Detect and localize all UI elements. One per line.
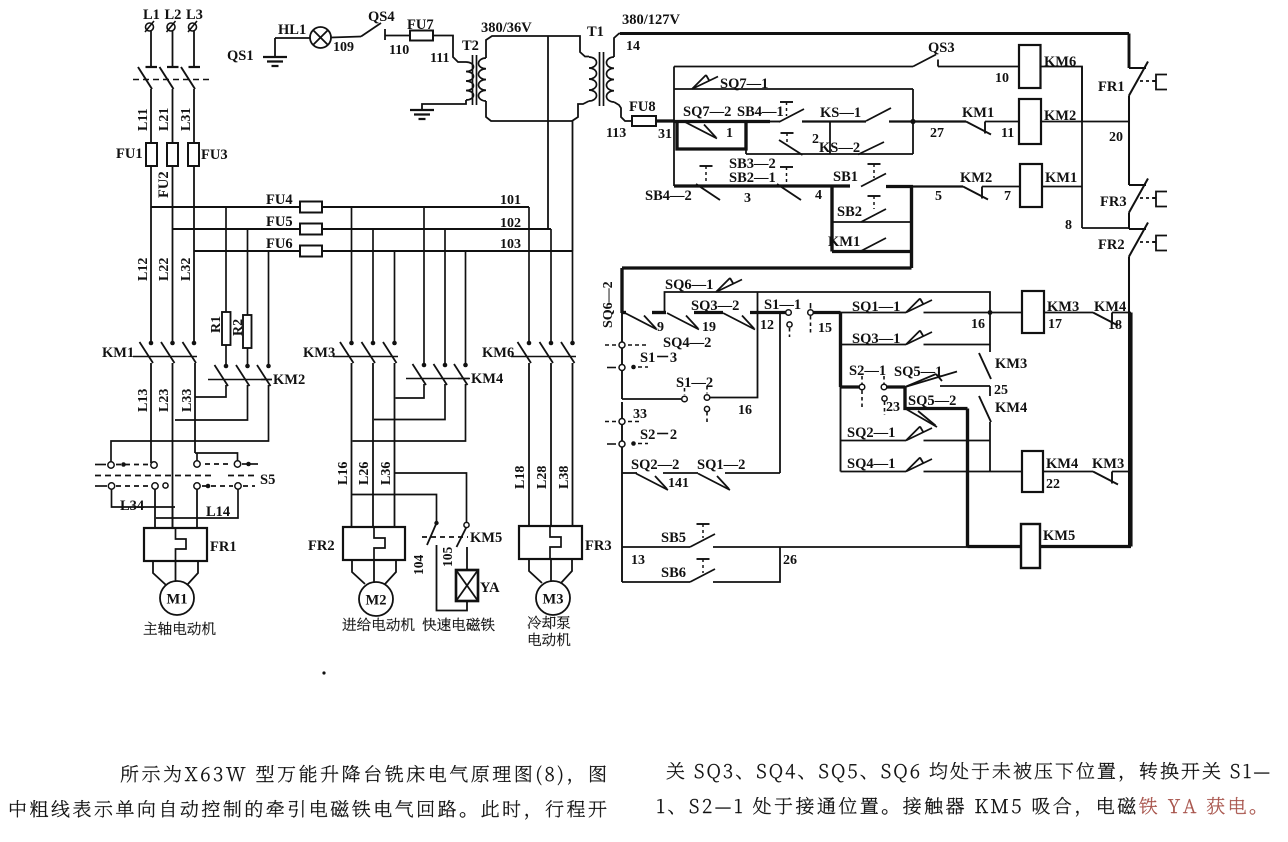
bold drop x968	[966, 409, 969, 547]
wire KM6 pole1 drop	[528, 207, 530, 343]
svg-text:102: 102	[500, 216, 521, 231]
wire SB6 up	[713, 547, 780, 582]
svg-text:YA: YA	[480, 580, 500, 596]
svg-text:4: 4	[815, 188, 822, 203]
svg-text:QS4: QS4	[368, 9, 395, 25]
svg-text:M3: M3	[543, 592, 564, 608]
svg-text:L14: L14	[206, 504, 230, 520]
rung QS3	[674, 66, 913, 68]
wire S2-1 right (bold)	[887, 385, 905, 388]
rung S1-2	[622, 398, 681, 400]
wire KM6 pole3 drop	[572, 251, 574, 343]
sub rung KS-2	[746, 153, 913, 155]
wire KM4 pole3 drop	[465, 251, 467, 365]
wire T1 secondary bottom to FU8	[614, 102, 632, 121]
svg-text:101: 101	[500, 193, 521, 208]
pushbutton SB2	[868, 195, 881, 197]
wire L28	[550, 363, 552, 526]
svg-text:SB5: SB5	[661, 530, 686, 546]
wire to KM2 coil	[985, 121, 1019, 123]
pushbutton SB5	[697, 523, 710, 525]
svg-text:20: 20	[1109, 130, 1123, 145]
disconnect switch QS1	[146, 66, 158, 68]
svg-text:KM5: KM5	[470, 530, 502, 546]
svg-text:31: 31	[658, 127, 672, 142]
bold link to lower section	[622, 266, 912, 269]
wire to KM5 coil (bold)	[968, 545, 1022, 548]
right rail	[1128, 96, 1130, 186]
wire SQ5-1 right	[940, 385, 990, 387]
rung segment (bold)	[694, 311, 723, 314]
right rail top (bold)	[1128, 34, 1131, 69]
svg-text:SB2—1: SB2—1	[729, 170, 776, 186]
svg-text:L31: L31	[179, 108, 194, 131]
paragraph right line2 red tail	[1139, 797, 1255, 815]
svg-text:111: 111	[430, 51, 449, 66]
svg-text:L21: L21	[157, 108, 172, 131]
wire KM2 pole3 to S5	[111, 385, 269, 463]
wire KM4 pole2 drop	[444, 229, 446, 365]
wire KM2 coil to rail	[1041, 121, 1129, 123]
rung SB4-2 (bold)	[674, 184, 850, 187]
svg-text:SQ4—2: SQ4—2	[663, 335, 711, 351]
wire SQ1-2 to x780	[725, 472, 780, 474]
main rung lower (bold) segment1	[622, 311, 626, 314]
node 2 link	[829, 122, 831, 155]
wire L3 drop	[193, 31, 195, 67]
bus 101	[151, 206, 300, 208]
relay coil KM4	[1022, 451, 1043, 492]
resistor R2	[247, 229, 249, 315]
svg-text:FU6: FU6	[266, 236, 293, 252]
wire QS3 to KM6 coil	[938, 66, 1019, 68]
svg-text:19: 19	[702, 320, 716, 335]
svg-text:SB2: SB2	[837, 204, 862, 220]
switch S5 plug-reverse	[108, 462, 114, 468]
wire SQ4-1 right	[924, 471, 1023, 473]
wire KM4 pole1 drop	[423, 207, 425, 365]
svg-text:13: 13	[631, 553, 645, 568]
contactor KM6 main contacts	[527, 341, 532, 346]
right rail	[1128, 213, 1130, 230]
rung SQ4-1	[841, 471, 907, 473]
svg-text:11: 11	[1001, 126, 1014, 141]
wire T2 secondary bottom	[486, 101, 572, 121]
paragraph left line2	[10, 800, 606, 820]
lamp HL1	[310, 27, 331, 48]
svg-text:S1—2: S1—2	[676, 375, 713, 391]
svg-text:L13: L13	[136, 389, 151, 412]
wire L12	[150, 166, 152, 343]
svg-text:9: 9	[657, 320, 664, 335]
terminal L3	[189, 23, 197, 31]
speed relay contact KS-2	[858, 142, 884, 155]
wire 105	[466, 547, 468, 570]
svg-text:SQ1—1: SQ1—1	[852, 299, 900, 315]
travel switch SQ1-1	[906, 300, 932, 313]
svg-text:KM6: KM6	[1044, 54, 1076, 70]
rail x990 mid	[989, 386, 991, 396]
svg-text:10: 10	[995, 71, 1009, 86]
fuse FU3	[188, 143, 199, 166]
svg-text:FU2: FU2	[156, 171, 172, 198]
wire to KM2 NC	[913, 185, 963, 187]
svg-text:L38: L38	[557, 466, 572, 489]
rail	[621, 424, 623, 441]
svg-text:109: 109	[333, 40, 354, 55]
selector switch S1-1	[786, 310, 792, 316]
wire KM3 pole1 drop	[351, 207, 353, 343]
svg-text:110: 110	[389, 43, 409, 58]
contactor KM1 main contacts	[149, 341, 154, 346]
pushbutton SB3-2	[781, 132, 794, 134]
caption 进给电动机	[343, 618, 415, 632]
svg-text:26: 26	[783, 553, 797, 568]
travel switch SQ3-1	[906, 332, 932, 345]
wire L33 jog to S5	[195, 453, 238, 461]
wire L36	[394, 363, 396, 527]
wire T2 primary to ground	[422, 100, 466, 110]
svg-text:7: 7	[1004, 189, 1011, 204]
rail x841 (bold)	[839, 313, 842, 388]
svg-text:FU5: FU5	[266, 214, 293, 230]
wire KS-1 to node 27	[889, 120, 966, 122]
fuse FU1	[146, 143, 157, 166]
wire lamp to QS4	[331, 37, 361, 38]
left rail lower (bold)	[620, 268, 623, 313]
pushbutton SB1	[868, 163, 881, 165]
rail to SB rungs	[621, 473, 623, 547]
wire T2 secondary top	[486, 36, 589, 58]
wire KM4 pole3 to L16	[353, 384, 466, 441]
switch QS3	[913, 55, 936, 67]
travel switch SQ1-2 NC	[698, 474, 730, 491]
terminal L2	[167, 23, 175, 31]
main control rung 31 (bold)	[674, 120, 770, 123]
wire 104	[437, 545, 468, 611]
svg-text:KM4: KM4	[995, 400, 1027, 416]
junction x990	[988, 310, 993, 315]
wire KM4 pole1 to L36	[396, 384, 425, 398]
selector switch S2-1	[859, 384, 865, 390]
svg-text:SB4—1: SB4—1	[737, 104, 784, 120]
contactor KM4 main contacts	[422, 363, 427, 368]
svg-text:25: 25	[994, 383, 1008, 398]
wire L1 drop	[150, 31, 152, 67]
svg-text:113: 113	[606, 126, 626, 141]
rung SQ3-1	[841, 344, 907, 346]
contact KM4 NC aux	[1093, 313, 1118, 326]
wire FR3 to M3 legs	[529, 559, 542, 583]
svg-text:KM3: KM3	[1092, 456, 1124, 472]
fuse FU8	[632, 116, 656, 126]
svg-text:22: 22	[1046, 477, 1060, 492]
svg-text:KM5: KM5	[1043, 528, 1075, 544]
svg-text:QS3: QS3	[928, 40, 955, 56]
svg-text:L11: L11	[136, 108, 151, 131]
svg-text:104: 104	[411, 555, 426, 576]
terminal L1	[146, 23, 154, 31]
wire S1-1 right (bold)	[814, 311, 841, 314]
paragraph right line1	[667, 762, 1269, 782]
svg-text:FU7: FU7	[407, 17, 434, 33]
stray print dot	[322, 671, 325, 674]
wire QS4 to FU7	[385, 35, 410, 37]
wire KM2 pole3 drop	[268, 251, 270, 366]
right rail lower	[1128, 257, 1130, 547]
svg-text:KM4: KM4	[471, 371, 503, 387]
branch SQ5-2 (bold)	[905, 387, 968, 409]
travel switch SQ4-2 NC	[667, 313, 699, 330]
rung SQ7-1	[674, 88, 913, 90]
svg-text:27: 27	[930, 126, 944, 141]
svg-text:S1－3: S1－3	[640, 350, 677, 366]
wire L32	[193, 166, 195, 343]
paragraph right line2	[658, 797, 1136, 817]
caption 冷却泵	[528, 616, 570, 629]
svg-text:T1: T1	[587, 24, 604, 40]
electromagnet YA	[456, 570, 478, 601]
wire S5 to FR1 left	[154, 489, 156, 528]
wire L18	[528, 363, 530, 526]
svg-text:KM3: KM3	[995, 356, 1027, 372]
fuse FU2	[167, 143, 178, 166]
wire KM4 pole2 to L26	[374, 384, 445, 420]
thermal overload FR2	[343, 527, 405, 560]
speed relay contact KS-1	[866, 108, 891, 121]
contact KM3 NO aux vertical	[979, 353, 991, 379]
wire KM3 pole2 drop	[372, 229, 374, 343]
svg-text:KM1: KM1	[102, 345, 134, 361]
svg-text:KM6: KM6	[482, 345, 514, 361]
bypass loop under SQ7-2 (bold)	[677, 122, 746, 150]
wire KM6 coil return	[1041, 67, 1083, 122]
wire SB1 right (bold)	[886, 185, 913, 188]
relay coil KM6	[1019, 45, 1041, 88]
svg-text:L18: L18	[513, 466, 528, 489]
svg-text:14: 14	[626, 39, 640, 54]
rung SQ2-1	[841, 440, 907, 442]
svg-text:105: 105	[440, 547, 455, 568]
wire KM2 pole2 to L23	[175, 385, 248, 420]
contactor KM5 contacts	[434, 521, 438, 525]
branch SQ6-1	[665, 292, 991, 313]
wire KM2 pole1 to L33	[195, 385, 226, 397]
svg-text:SQ3—1: SQ3—1	[852, 331, 900, 347]
svg-text:FR3: FR3	[585, 538, 612, 554]
wire FR1 mid	[172, 507, 174, 528]
wire L13	[150, 363, 152, 463]
svg-text:QS1: QS1	[227, 48, 254, 64]
svg-text:S2－2: S2－2	[640, 427, 677, 443]
svg-text:SQ2—1: SQ2—1	[847, 425, 895, 441]
branch x780	[779, 313, 781, 474]
svg-text:KM1: KM1	[962, 105, 994, 121]
wire L16	[351, 363, 353, 527]
svg-text:103: 103	[500, 237, 521, 252]
svg-text:KS—1: KS—1	[820, 105, 861, 121]
wire L33	[194, 363, 196, 453]
contact KM3 NC aux	[1093, 472, 1118, 485]
wire T1 primary bottom	[572, 101, 589, 121]
wire x548 to bus102	[547, 36, 549, 229]
contactor KM3 main contacts	[349, 341, 354, 346]
svg-text:33: 33	[633, 407, 647, 422]
wire SQ3-1 right	[924, 344, 991, 346]
svg-text:KS—2: KS—2	[819, 140, 860, 156]
svg-text:18: 18	[1108, 318, 1122, 333]
rail x990 low	[989, 422, 991, 472]
selector S1-3 upper circle	[619, 342, 625, 348]
svg-text:FR3: FR3	[1100, 194, 1127, 210]
svg-text:SQ4—1: SQ4—1	[847, 456, 895, 472]
rung segment	[663, 472, 698, 474]
svg-text:L23: L23	[157, 389, 172, 412]
relay coil KM1	[1020, 164, 1042, 207]
thermal overload FR3	[519, 526, 582, 559]
svg-text:SQ5—2: SQ5—2	[908, 393, 956, 409]
svg-text:FR1: FR1	[1098, 79, 1125, 95]
wire L26	[372, 363, 374, 527]
svg-text:L36: L36	[379, 462, 394, 485]
svg-text:S5: S5	[260, 472, 275, 488]
caption 主轴电动机	[144, 622, 216, 635]
fuse FU5	[300, 224, 322, 235]
svg-text:SQ7—2: SQ7—2	[683, 104, 731, 120]
travel switch SQ6-1	[716, 280, 742, 293]
rail x841 lower	[840, 387, 842, 472]
svg-text:17: 17	[1048, 317, 1062, 332]
svg-text:L26: L26	[357, 462, 372, 485]
thermal contact FR2	[1129, 228, 1146, 230]
wire SQ2-1 right	[924, 440, 991, 442]
svg-text:KM3: KM3	[303, 345, 335, 361]
wire L36 to KM5 contact	[395, 473, 467, 523]
travel switch SQ7-2	[685, 122, 717, 139]
bus 103	[194, 250, 300, 252]
travel switch SQ5-2 arm	[906, 409, 937, 427]
svg-text:L33: L33	[180, 389, 195, 412]
wire SQ1-1 to node16	[924, 312, 1023, 314]
motor M3	[536, 581, 570, 615]
wire L38	[572, 363, 574, 526]
wire KM3 pole3 drop	[394, 251, 396, 343]
travel switch SQ3-2 NC	[723, 313, 755, 330]
relay coil KM3	[1022, 291, 1044, 333]
branch box SB2/KM1 left rail (bold)	[830, 186, 833, 252]
wire x570 to bus103	[572, 121, 574, 251]
caption 快速电磁铁	[423, 618, 495, 631]
svg-text:L2: L2	[165, 7, 182, 23]
wire KM4 coil to KM3 NC	[1043, 471, 1093, 473]
wire L11	[150, 89, 152, 143]
svg-text:KM1: KM1	[1045, 170, 1077, 186]
travel switch SQ2-2 NC	[636, 474, 668, 491]
svg-text:FU8: FU8	[629, 99, 656, 115]
wire to right rail	[1112, 312, 1131, 314]
svg-text:S2—1: S2—1	[849, 363, 886, 379]
svg-text:L12: L12	[136, 258, 151, 281]
right rail upper box	[912, 89, 914, 154]
bus 380/127V	[620, 32, 1129, 35]
ground for lamp	[274, 38, 276, 57]
wire S5 to FR1 right	[196, 489, 198, 528]
wire FR2 to M2 legs	[352, 560, 365, 584]
resistor R1	[225, 207, 227, 312]
wire KM5 coil return (bold)	[1040, 545, 1131, 548]
rung segment (bold)	[652, 311, 666, 314]
svg-text:8: 8	[1065, 218, 1072, 233]
svg-text:15: 15	[818, 321, 832, 336]
svg-text:SQ2—2: SQ2—2	[631, 457, 679, 473]
node 8 wire	[1082, 227, 1129, 229]
rung SQ2-2	[622, 472, 637, 474]
node L34 wire	[112, 489, 176, 507]
svg-text:SQ6—1: SQ6—1	[665, 277, 713, 293]
caption 电动机	[529, 633, 570, 646]
relay coil KM2	[1019, 99, 1041, 144]
svg-text:380/127V: 380/127V	[622, 12, 681, 28]
contact KM1 NO aux	[861, 238, 886, 251]
travel switch SB4-2 NC	[700, 165, 713, 167]
wire SB5 to KM5 (bold at end)	[713, 546, 968, 548]
wire L22	[172, 166, 174, 343]
svg-text:HL1: HL1	[278, 22, 306, 38]
contact KM2 NC aux	[963, 187, 988, 200]
svg-text:L3: L3	[186, 7, 203, 23]
contact KM4 NO aux vertical	[979, 396, 991, 422]
svg-text:KM2: KM2	[960, 170, 992, 186]
svg-text:KM2: KM2	[273, 372, 305, 388]
svg-text:FU1: FU1	[116, 146, 143, 162]
wire to rail	[1112, 471, 1131, 473]
thermal contact FR1	[1129, 67, 1146, 69]
rail x1082	[1081, 67, 1083, 229]
svg-text:SQ3—2: SQ3—2	[691, 298, 739, 314]
relay coil KM5	[1021, 524, 1040, 568]
svg-text:2: 2	[812, 132, 819, 147]
left rail upper control	[673, 67, 675, 187]
switch QS4	[361, 23, 381, 37]
svg-text:R1: R1	[209, 316, 224, 333]
wire L31	[193, 89, 195, 143]
rail to SB6	[621, 547, 623, 582]
rung S2-1 (bold left)	[841, 385, 860, 388]
svg-text:KM4: KM4	[1046, 456, 1078, 472]
rung SB5	[622, 546, 690, 548]
svg-text:L22: L22	[157, 258, 172, 281]
rung SB6	[622, 581, 690, 583]
svg-text:L16: L16	[336, 462, 351, 485]
svg-text:T2: T2	[462, 38, 479, 54]
left rail lower section	[621, 313, 623, 345]
svg-text:M1: M1	[167, 592, 188, 608]
svg-text:16: 16	[971, 317, 985, 332]
motor M2	[359, 582, 393, 616]
travel switch SQ7-1	[692, 77, 718, 90]
svg-text:L34: L34	[120, 498, 144, 514]
svg-text:141: 141	[668, 476, 689, 491]
fuse FU7	[410, 31, 433, 41]
svg-text:23: 23	[886, 400, 900, 415]
wire L23	[172, 363, 174, 528]
svg-text:FU4: FU4	[266, 192, 293, 208]
svg-text:R2: R2	[231, 319, 246, 336]
rail x990	[989, 313, 991, 353]
wire KM1 coil return	[1042, 186, 1082, 188]
selector switch S1-2	[682, 396, 688, 402]
svg-text:FR1: FR1	[210, 539, 237, 555]
